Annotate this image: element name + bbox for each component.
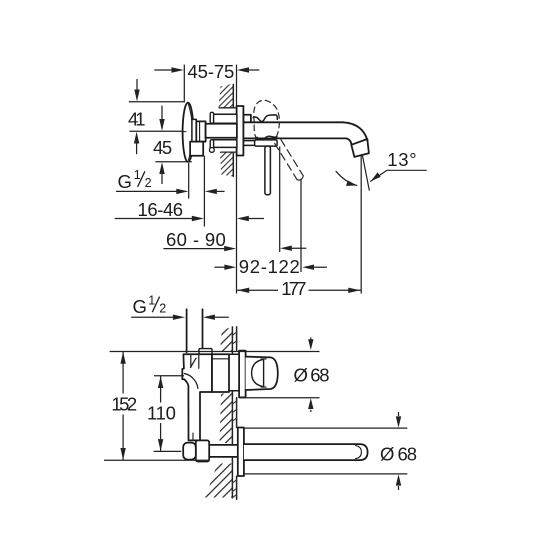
- upper shank: [213, 114, 237, 123]
- G1/2 right arrowhead: [205, 189, 217, 194]
- upper shank collar: [210, 112, 213, 123]
- spout collar stub: [243, 115, 251, 123]
- dim O68 spout arrow stems: [398, 412, 400, 416]
- spout bend inner: [346, 138, 351, 144]
- svg-text:152: 152: [111, 393, 137, 414]
- handle rod: [265, 146, 271, 195]
- wall hatch bottom band: [205, 464, 232, 498]
- 13deg swing arc: [336, 171, 357, 185]
- wall surface line upper: [232, 85, 234, 108]
- flange ellipse: [183, 103, 194, 162]
- spout wall pipe: [209, 445, 238, 457]
- dim O68 handle bottom arrowhead: [308, 398, 313, 409]
- svg-text:16-46: 16-46: [138, 199, 184, 220]
- dim 110 line upper: [160, 376, 162, 402]
- svg-text:177: 177: [281, 278, 306, 299]
- dim O68 handle bottom ref line: [240, 397, 320, 399]
- svg-text:41: 41: [128, 108, 146, 129]
- spout tube top line: [243, 121, 343, 123]
- svg-text:Ø 68: Ø 68: [294, 364, 330, 385]
- elbow cap: [183, 443, 196, 460]
- dim 16-46 left arrowhead: [192, 216, 204, 221]
- dim 92-122 left arrow tail: [215, 266, 226, 268]
- dim O68 handle top arrowhead: [308, 339, 313, 350]
- wall hatch upper band: [219, 84, 234, 108]
- wall face ext line below plate: [236, 156, 238, 294]
- dim 45-75 left arrowhead: [172, 67, 184, 72]
- G1/2 bottom right arrowhead: [203, 315, 215, 320]
- spout tip ext line: [360, 156, 362, 294]
- handle dome arc: [252, 359, 264, 386]
- flange inner curve: [189, 105, 193, 161]
- 13deg leader: [371, 170, 427, 181]
- spout bend outer: [343, 122, 367, 140]
- dim 45 lower arrow stem: [161, 173, 163, 184]
- dim 177 left arrowhead: [237, 288, 249, 293]
- dim 110 line lower: [160, 423, 162, 451]
- dim 16-46 right arrow tail: [247, 218, 264, 220]
- body mid: [206, 124, 237, 138]
- dim 60-90 left arrowhead: [224, 246, 236, 251]
- aerator block: [351, 139, 369, 157]
- dim 152 line upper: [122, 352, 124, 394]
- svg-text:1: 1: [134, 168, 141, 182]
- handle cap frustum: [246, 357, 278, 390]
- dim 41 lower arrowhead: [134, 132, 139, 144]
- dim 152 top ref line: [110, 351, 320, 353]
- dim 41/45 center ref line: [130, 130, 183, 132]
- body waist curve: [184, 374, 198, 389]
- handle wavy solid upper: [253, 115, 277, 122]
- dim 45-75 right arrow line: [248, 69, 260, 71]
- dim O68 spout top ref line: [244, 427, 407, 429]
- dim O68 spout bottom ref line: [244, 473, 407, 475]
- dim 45 upper arrowhead: [159, 119, 164, 131]
- G1/2 ext line left: [188, 163, 190, 199]
- dim 16-46 label line: [115, 218, 193, 220]
- wall channel ticks: [232, 332, 236, 498]
- body outline: [182, 354, 212, 440]
- dim 41 lower arrow stem: [136, 143, 138, 155]
- G1/2 label line: [116, 190, 177, 192]
- svg-text:2: 2: [145, 176, 152, 190]
- flange back plate: [192, 119, 196, 152]
- wall hatch upper band: [220, 327, 232, 352]
- svg-text:2: 2: [159, 301, 166, 315]
- G1/2 ext line right: [203, 156, 205, 227]
- dim 177 line left segment: [237, 289, 279, 291]
- dim 16-46 right arrowhead: [237, 216, 249, 221]
- dim 92-122 right arrow tail: [313, 266, 328, 268]
- elbow collar: [196, 440, 209, 461]
- dim 60-90 right arrow tail: [290, 247, 306, 249]
- lever end ext line: [300, 180, 302, 272]
- lower shank tab: [210, 148, 215, 153]
- G1/2 bottom left arrowhead: [173, 315, 185, 320]
- pivot ext line: [279, 147, 281, 253]
- dim 41 top ref line: [129, 101, 184, 103]
- dim 41 upper arrowhead: [134, 90, 139, 102]
- dim 45 bottom ref line: [155, 161, 191, 163]
- svg-text:Ø 68: Ø 68: [380, 444, 417, 465]
- supply pipe: [187, 309, 203, 352]
- handle dome dashed: [254, 100, 280, 143]
- G1/2 right arrow tail: [214, 190, 225, 192]
- wall band top border line: [219, 107, 236, 109]
- wall back line: [231, 327, 233, 498]
- spout bar inner arc: [356, 446, 362, 459]
- pivot block: [255, 140, 278, 146]
- body socket bore lines: [191, 355, 199, 368]
- wall front line: [236, 327, 238, 499]
- handle dome chord: [263, 359, 265, 386]
- svg-text:13°: 13°: [387, 149, 417, 170]
- 13deg swing arrowhead: [346, 181, 357, 186]
- body joint diagonal: [191, 358, 197, 367]
- flange mid seam: [183, 131, 186, 133]
- dim 41 upper arrow stem: [136, 79, 138, 91]
- dim 45-75 right arrowhead: [237, 67, 249, 72]
- dim 152 line lower: [122, 415, 124, 460]
- spout rosette: [238, 428, 244, 477]
- dim O68 spout top arrowhead: [396, 416, 401, 427]
- column inner line: [192, 433, 194, 440]
- 13deg leader arrowhead: [371, 172, 381, 181]
- spout bar: [244, 444, 368, 460]
- dim 152 bottom arrowhead: [120, 448, 125, 460]
- svg-text:110: 110: [147, 403, 176, 424]
- inlet block: [190, 142, 203, 156]
- dim 152 top arrowhead: [120, 352, 125, 364]
- dim 60-90 right arrowhead: [280, 246, 292, 251]
- dim 92-122 left arrowhead: [224, 265, 236, 270]
- dim O68 handle arrow stems: [310, 338, 312, 340]
- lower shank: [213, 140, 237, 148]
- dim 45-75 ext line right: [236, 65, 238, 106]
- 13deg tilt line: [362, 155, 369, 190]
- svg-text:45-75: 45-75: [188, 61, 235, 82]
- dim 45 lower arrowhead: [159, 162, 164, 174]
- svg-text:92-122: 92-122: [239, 256, 300, 277]
- wall surface line lower: [232, 152, 234, 176]
- lower shank collar: [210, 140, 213, 149]
- cartridge top inner line: [213, 358, 229, 360]
- body top boss: [199, 349, 212, 355]
- mounting plate: [237, 106, 244, 156]
- handle dome ticks: [261, 359, 266, 387]
- svg-text:G: G: [133, 296, 147, 317]
- dim 177 right arrowhead: [348, 288, 360, 293]
- spout tube bottom line: [243, 137, 346, 139]
- G1/2 left arrowhead: [176, 189, 188, 194]
- wall hatch middle band: [220, 392, 233, 445]
- dim 92-122 right arrowhead: [302, 265, 314, 270]
- pivot stub: [244, 141, 255, 146]
- dim 110 bottom ref line: [154, 450, 182, 452]
- dim 60-90 label line: [163, 248, 225, 250]
- wall hatch lower band: [220, 152, 234, 176]
- cartridge neck: [196, 121, 205, 141]
- svg-text:1: 1: [148, 293, 155, 307]
- dim 152 bottom ref line: [104, 459, 209, 461]
- dim 45-75 left arrow line: [154, 69, 172, 71]
- dim 177 line right segment: [309, 289, 361, 291]
- dim 45-75 ext line left: [183, 65, 185, 103]
- dim O68 spout bottom arrowhead: [396, 474, 401, 485]
- neck inner line: [199, 122, 201, 142]
- handle wavy solid lower: [257, 136, 277, 139]
- cartridge stem: [229, 354, 239, 391]
- cartridge housing: [212, 354, 229, 392]
- dim 110 top ref line: [154, 375, 184, 377]
- dim 110 bottom arrowhead: [158, 439, 163, 451]
- dim 45 upper arrow stem: [161, 106, 163, 120]
- G1/2 bottom label line: [131, 316, 174, 318]
- svg-text:45: 45: [153, 137, 172, 158]
- wall band lower border line: [221, 151, 237, 153]
- svg-text:G: G: [118, 171, 132, 192]
- svg-text:60 - 90: 60 - 90: [166, 229, 226, 250]
- G1/2 bottom right arrow tail: [212, 316, 229, 318]
- handle rosette: [239, 351, 246, 398]
- handle lever dashed: [275, 140, 304, 180]
- dim 110 top arrowhead: [158, 376, 163, 388]
